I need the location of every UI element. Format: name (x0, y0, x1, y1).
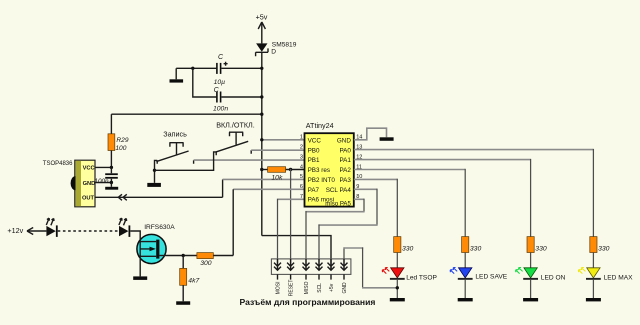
svg-text:100: 100 (115, 145, 126, 152)
LED ON green (516, 268, 538, 280)
svg-text:7: 7 (300, 194, 303, 200)
wire dashed between IR LEDs (58, 230, 119, 232)
svg-text:VCC: VCC (83, 166, 95, 172)
node junction S1 ground (153, 169, 156, 172)
resistor R29 (108, 134, 115, 151)
wire R29 vertical top (110, 114, 112, 134)
ground bar S1 (147, 183, 161, 187)
transistor Q1 IRFS630A (137, 234, 166, 263)
pin numbers left (300, 135, 303, 201)
node junction LED1 gnd (396, 286, 399, 289)
wire PA7 pin 6 (233, 188, 304, 190)
resistor R4 4k7 (180, 268, 187, 285)
ground bar LED1 (390, 298, 405, 301)
wire R7 to LED (530, 253, 532, 268)
svg-text:1: 1 (300, 135, 303, 141)
connector pin labels (276, 280, 349, 297)
wire C1 to +5v line (222, 67, 262, 69)
wire +5v arrow to diode (261, 22, 263, 43)
svg-text:330: 330 (470, 246, 482, 253)
wire S1 left terminal to ground (155, 160, 158, 183)
node junction C1 right (260, 67, 263, 70)
TSOP lens (71, 176, 76, 190)
svg-text:IRFS630A: IRFS630A (144, 224, 175, 231)
ground bar MOSFET (133, 276, 147, 280)
wire TSOP OUT (95, 196, 223, 198)
svg-text:SCL PA4: SCL PA4 (326, 187, 352, 194)
svg-text:10k: 10k (271, 175, 283, 182)
svg-text:Led TSOP: Led TSOP (406, 274, 437, 281)
wire PB2 INT0 pin 5 (223, 178, 305, 180)
node junction R29 wire at +5v (260, 113, 263, 116)
wire PA0 pin 13 to LED MAX (354, 149, 594, 151)
svg-text:LED ON: LED ON (541, 274, 566, 281)
wire PA5 pin 8 to MISO (354, 198, 364, 200)
svg-text:PB3 res: PB3 res (308, 167, 330, 174)
wire 10k right to PB3 pin 4 (286, 169, 305, 171)
ground bar top-left (170, 79, 184, 82)
node junction 10k left (260, 168, 263, 171)
wire LED2 to MOSFET drain (130, 231, 140, 235)
wire 4k7 top (182, 256, 184, 269)
node junction cap top (191, 67, 194, 70)
svg-text:+12v: +12v (7, 226, 23, 235)
svg-text:10µ: 10µ (214, 79, 226, 86)
LED Led TSOP red (382, 268, 404, 280)
wire S2 right to PB0 pin 2 (251, 149, 304, 151)
svg-text:4: 4 (300, 164, 303, 170)
wire PA6 mosi pin 7 (278, 198, 305, 200)
wire S1 right to PB1 pin 3 (194, 159, 305, 161)
svg-text:VCC: VCC (308, 137, 322, 144)
wire 10k left (262, 169, 268, 171)
svg-text:PA2: PA2 (339, 167, 351, 174)
wire gate riser (232, 189, 234, 255)
svg-text:4k7: 4k7 (188, 278, 199, 285)
svg-text:100n: 100n (94, 178, 109, 185)
svg-text:OUT: OUT (82, 196, 95, 202)
node junction C2 right (260, 95, 263, 98)
svg-text:330: 330 (535, 246, 547, 253)
wire +12v to LED1 (27, 230, 46, 232)
svg-text:+5v: +5v (256, 13, 268, 22)
svg-text:LED MAX: LED MAX (604, 274, 634, 281)
wire LED2 to ground (464, 280, 466, 298)
ground bar 4k7 (176, 301, 190, 305)
svg-text:PB0: PB0 (308, 147, 320, 154)
IR LED D1 (46, 218, 57, 237)
svg-text:ATtiny24: ATtiny24 (306, 121, 334, 130)
wire LED3 to ground (530, 280, 532, 298)
connector pin stubs below (278, 274, 345, 279)
svg-text:SM5819: SM5819 (272, 41, 297, 48)
wire gate to junction (166, 255, 197, 257)
svg-text:6: 6 (300, 184, 303, 190)
svg-text:PB1: PB1 (308, 157, 320, 164)
svg-text:3: 3 (300, 154, 303, 160)
svg-text:SCL: SCL (317, 283, 323, 293)
wire R6 to LED (464, 253, 466, 268)
wire GND pin 14 (354, 128, 387, 140)
wire R29 top horizontal (111, 113, 261, 115)
svg-text:RESET: RESET (289, 280, 295, 297)
wire 300 to gate riser (213, 255, 233, 257)
resistor R8 330 (590, 237, 597, 253)
svg-text:GND: GND (337, 137, 351, 144)
wire PA4 pin 9 to SCL (354, 188, 377, 190)
svg-text:5: 5 (300, 174, 303, 180)
svg-text:PA7: PA7 (308, 187, 320, 194)
IC U1 ATtiny24 (305, 133, 354, 207)
svg-text:100n: 100n (213, 106, 228, 113)
switch S1 Запись (156, 143, 193, 164)
ground top-left (175, 68, 177, 79)
capacitor C2 100n (216, 92, 221, 103)
resistor R3 300 (197, 253, 213, 259)
svg-text:R29: R29 (116, 137, 128, 144)
svg-text:2: 2 (300, 145, 303, 151)
wire reset to connector (290, 169, 292, 270)
wire S2 left terminal down (155, 152, 217, 170)
LED MAX yellow (578, 268, 600, 280)
wire PA3 pin 10 to Led TSOP (354, 178, 398, 180)
wire TSOP GND (95, 182, 111, 184)
resistor R2 10k (268, 167, 286, 173)
wire ground to C1 (176, 67, 216, 69)
svg-text:Запись: Запись (163, 130, 187, 139)
wire R8 to LED (592, 253, 594, 268)
svg-text:MOSI: MOSI (276, 282, 282, 295)
connector J1 programming header (271, 259, 351, 275)
wire R5 to LED (396, 253, 398, 268)
ground bar LED3 (523, 298, 538, 301)
resistor R7 330 (527, 237, 534, 253)
LED SAVE blue (450, 268, 472, 280)
node junction TSOP GND (110, 181, 113, 184)
IC TSOP4836 body (71, 160, 96, 207)
resistor R6 330 (462, 237, 469, 253)
wire LED1 to ground (396, 280, 398, 298)
chevrons on OUT wire (118, 194, 127, 200)
wire mosi to connector (277, 199, 279, 270)
capacitor C1 10u (216, 62, 228, 74)
pin numbers right (356, 135, 362, 201)
wire PA2 pin 11 to LED SAVE (354, 169, 465, 171)
ground bar pin 14 (380, 137, 394, 141)
node junction TSOP VCC (110, 166, 113, 169)
wire +5v to connector (262, 236, 331, 270)
svg-text:TSOP4836: TSOP4836 (43, 161, 73, 167)
svg-text:ВКЛ./ОТКЛ.: ВКЛ./ОТКЛ. (216, 121, 255, 130)
node +12v arrow (27, 228, 33, 235)
svg-text:PB2 INT0: PB2 INT0 (308, 177, 336, 184)
svg-text:MISO: MISO (304, 281, 310, 294)
wire GND connector to Led TSOP ground (343, 247, 345, 270)
svg-text:Разъём для программирования: Разъём для программирования (240, 297, 376, 307)
wire OUT up to INT0 (222, 179, 224, 197)
svg-text:300: 300 (200, 260, 212, 267)
resistor R5 330 (394, 237, 401, 253)
capacitor C3 100n at TSOP (105, 167, 118, 182)
svg-text:+5v: +5v (329, 283, 335, 292)
node junction reset (289, 168, 292, 171)
wire R29 to TSOP VCC (95, 151, 111, 168)
connector pin arrows (274, 259, 348, 270)
svg-text:GND: GND (83, 181, 96, 187)
ground bar LED2 (458, 298, 473, 301)
ground bar LED4 (586, 298, 601, 301)
wire VCC pin 1 (262, 139, 305, 141)
node +5v arrow (258, 22, 265, 29)
wire MOSFET source to ground (139, 264, 141, 277)
node junction pin1 (260, 138, 263, 141)
wire 4k7 to ground (182, 285, 184, 301)
svg-text:PA1: PA1 (339, 157, 351, 164)
svg-text:PA3: PA3 (339, 177, 351, 184)
switch S2 ВКЛ/ОТКЛ (216, 132, 251, 155)
svg-text:miso PA5: miso PA5 (325, 200, 351, 207)
svg-text:PA0: PA0 (339, 147, 351, 154)
IR LED D2 (119, 218, 130, 237)
wire PA1 pin 12 to LED ON (354, 159, 531, 161)
svg-text:LED SAVE: LED SAVE (475, 273, 507, 280)
diode D SM5819 (256, 43, 268, 56)
svg-text:330: 330 (598, 246, 610, 253)
wire C2 to +5v line (222, 96, 262, 98)
svg-text:D: D (271, 49, 276, 56)
node junction gate (182, 254, 185, 257)
wire cap left branch (193, 68, 217, 97)
ground bar TSOP (105, 187, 118, 190)
wire LED4 to ground (592, 280, 594, 298)
svg-text:330: 330 (402, 246, 414, 253)
svg-text:GND: GND (342, 282, 348, 294)
ground TSOP (110, 183, 112, 187)
wire +5v main vertical line (261, 52, 263, 235)
